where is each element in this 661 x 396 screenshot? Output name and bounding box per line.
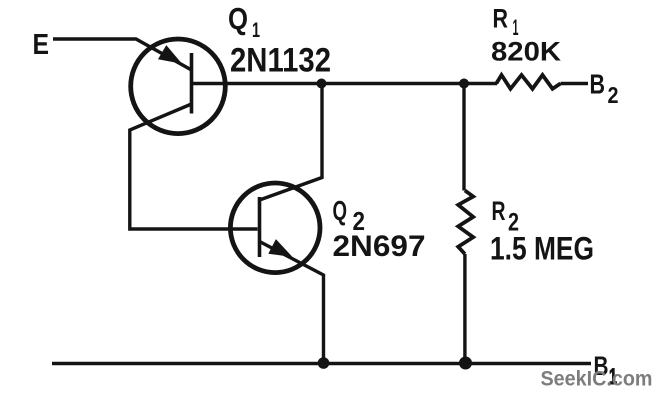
emitter arrow of Q2 (NPN, pointing out) xyxy=(268,239,292,257)
transistor Q1 circle xyxy=(131,39,226,134)
transistor Q2 circle xyxy=(230,183,320,273)
svg-text:1: 1 xyxy=(252,19,260,42)
transistor Q1 base bar xyxy=(190,53,194,114)
svg-text:Q: Q xyxy=(333,195,348,226)
svg-text:2: 2 xyxy=(608,82,619,108)
svg-text:1.5 MEG: 1.5 MEG xyxy=(490,231,594,267)
wire: R1 to terminal B2 xyxy=(561,82,589,85)
svg-text:E: E xyxy=(33,29,50,61)
resistor R2 zigzag xyxy=(458,191,473,255)
svg-text:2N697: 2N697 xyxy=(333,230,426,263)
junction dot: R1/R2 node xyxy=(459,79,469,89)
transistor Q2 base bar xyxy=(258,197,262,257)
svg-text:R: R xyxy=(492,196,506,226)
junction dot: Q2 collector on top rail xyxy=(317,79,327,89)
junction dot: Q2 emitter on bottom rail xyxy=(318,357,330,369)
resistor R1 zigzag xyxy=(496,75,560,89)
wire: E input lead to Q1 emitter xyxy=(53,39,192,70)
svg-text:SeekIC.com: SeekIC.com xyxy=(541,368,653,391)
svg-text:Q: Q xyxy=(228,1,248,36)
wire: R1/R2 node down to R2 xyxy=(462,84,465,191)
emitter arrow of Q1 (PNP, pointing toward base) xyxy=(158,45,182,64)
wire: R2 down to bottom rail xyxy=(463,254,466,363)
wire: bottom rail xyxy=(52,362,591,365)
svg-text:R: R xyxy=(493,4,509,34)
wire: Q1 collector down and across to Q2 base xyxy=(130,104,258,229)
wire: Q2 collector riser to top rail xyxy=(260,84,323,201)
svg-text:B: B xyxy=(590,69,606,100)
svg-text:820K: 820K xyxy=(491,37,562,67)
wire: top rail from Q1 base to R1 xyxy=(192,82,498,85)
svg-text:2N1132: 2N1132 xyxy=(230,42,331,80)
wire: Q2 emitter drop to bottom rail xyxy=(260,242,324,364)
junction dot: R2 on bottom rail xyxy=(459,357,472,370)
